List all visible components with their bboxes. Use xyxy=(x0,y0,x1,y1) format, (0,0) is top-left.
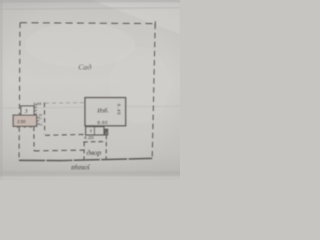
hatched square xyxy=(104,129,108,135)
svg-text:2.49: 2.49 xyxy=(33,101,41,106)
shed wide building (2.50) xyxy=(13,115,36,126)
yard fence: vertical below shed xyxy=(33,127,35,151)
shed square (З) xyxy=(21,106,34,115)
svg-text:4.20: 4.20 xyxy=(84,135,94,140)
yard fence: vertical left of dvor xyxy=(83,142,85,159)
yard fence: horizontal above street xyxy=(34,149,84,152)
paper dark strip top edge xyxy=(0,0,180,2)
paper dark strip left edge xyxy=(0,0,3,180)
paper bright band top right xyxy=(92,0,180,34)
svg-text:6.40: 6.40 xyxy=(117,104,122,116)
paper crease bottom band xyxy=(0,171,180,176)
boundary left dashed lower xyxy=(18,127,20,161)
svg-text:Изб.: Изб. xyxy=(96,108,109,115)
boundary right dashed xyxy=(152,24,155,159)
svg-text:двор: двор xyxy=(87,148,102,157)
svg-text:2.50: 2.50 xyxy=(17,119,26,124)
yard fence: horizontal mid xyxy=(45,133,85,136)
boundary left dashed upper xyxy=(18,23,21,115)
street line (boundary bottom) xyxy=(19,158,152,160)
paper crease top xyxy=(0,8,180,10)
paper crease middle xyxy=(0,106,180,109)
yard fence: horizontal under porch xyxy=(83,141,106,144)
paper crease bottom light xyxy=(0,177,180,181)
svg-text:2.70: 2.70 xyxy=(38,112,43,125)
boundary top dashed xyxy=(20,22,155,25)
paper cloud highlight right xyxy=(110,47,170,123)
paper cloud highlight garden xyxy=(25,23,135,67)
svg-text:улица: улица xyxy=(71,164,91,173)
yard fence: vertical near shed xyxy=(43,103,45,134)
svg-text:З: З xyxy=(25,109,28,115)
porch tick xyxy=(93,127,95,135)
svg-text:8.60: 8.60 xyxy=(97,120,107,125)
svg-text:Сад: Сад xyxy=(78,63,91,72)
shed right wall hatching xyxy=(17,104,39,128)
house (main building) xyxy=(85,98,126,126)
yard fence: vertical right of dvor xyxy=(105,135,107,159)
porch row xyxy=(86,127,104,135)
yard fence: faint top horizontal to house xyxy=(45,102,85,105)
paper background xyxy=(0,0,180,180)
boundary corner tick xyxy=(154,21,156,26)
